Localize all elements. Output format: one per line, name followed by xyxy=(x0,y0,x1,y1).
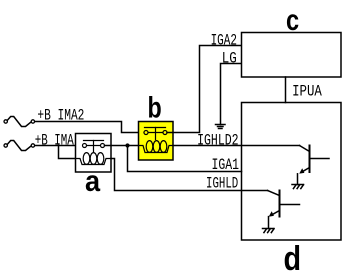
wire LG xyxy=(221,64,242,125)
relay b coil xyxy=(139,141,174,153)
ground (Q2 emitter) xyxy=(263,229,275,233)
relay a contact xyxy=(83,141,105,152)
wire IPUA xyxy=(285,77,287,103)
fusible link FL1 (+B IMA2 source) xyxy=(4,117,35,127)
fusible link FL2 (+B IMA source) xyxy=(4,141,35,151)
ground (LG) xyxy=(216,125,226,129)
relay a box xyxy=(76,134,112,173)
svg-text:IGHLD: IGHLD xyxy=(206,174,238,192)
wire +B IMA2 to relay b contact xyxy=(35,122,144,133)
relay b box (highlighted) xyxy=(139,122,174,161)
svg-text:a: a xyxy=(85,165,100,198)
svg-text:LG: LG xyxy=(222,49,237,67)
svg-text:IGA1: IGA1 xyxy=(212,156,240,174)
wire relay a contact out to relay b coil xyxy=(105,145,140,147)
svg-text:+B IMA2: +B IMA2 xyxy=(37,107,84,125)
box c xyxy=(242,33,342,78)
wire relay b contact to IGA2 xyxy=(167,46,242,133)
svg-text:+B IMA: +B IMA xyxy=(35,131,74,149)
relay a coil xyxy=(76,153,112,165)
svg-text:IGHLD2: IGHLD2 xyxy=(197,132,239,150)
relay b contact xyxy=(144,128,167,140)
wire IGHLD2 (relay b coil out to box d transistor) xyxy=(173,145,300,147)
wire branch +B IMA to relay a coil xyxy=(59,146,77,159)
wire IGHLD (relay a coil out to box d) xyxy=(111,159,268,191)
wire IGA1 (junction down to box d) xyxy=(128,146,242,172)
svg-text:d: d xyxy=(284,240,302,278)
transistor Q1 (upper) xyxy=(298,146,330,185)
transistor Q2 (lower) xyxy=(268,191,300,229)
svg-text:IGA2: IGA2 xyxy=(211,31,237,49)
box d xyxy=(242,103,342,241)
svg-text:IPUA: IPUA xyxy=(292,82,322,100)
wire +B IMA to relay a contact xyxy=(35,145,83,147)
svg-text:b: b xyxy=(148,92,162,125)
ground (Q1 emitter) xyxy=(292,185,304,189)
svg-text:c: c xyxy=(286,4,299,37)
node junction dot xyxy=(125,143,129,147)
